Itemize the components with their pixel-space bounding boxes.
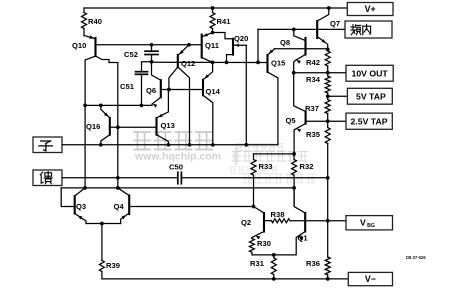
- wire chain link: [327, 178, 329, 257]
- pin box 5V TAP: [347, 88, 392, 104]
- resistor R37: [327, 96, 329, 99]
- wire emitter rail: [85, 104, 152, 106]
- svg-text:Q16: Q16: [86, 122, 100, 131]
- wire tail line: [86, 223, 121, 225]
- svg-text:Q11: Q11: [205, 41, 220, 50]
- capacitor C51: [142, 62, 152, 72]
- wire 5V line: [328, 95, 348, 97]
- node 10V tap: [326, 71, 330, 75]
- wire Q16/Q13 base: [110, 126, 157, 128]
- node rail left: [83, 104, 87, 108]
- svg-text:Q3: Q3: [76, 202, 86, 211]
- pin box strap: [33, 137, 62, 153]
- wire feedback line left: [62, 177, 177, 179]
- node Q20 emitter foot: [244, 143, 248, 147]
- wire 10V line: [294, 72, 346, 74]
- node R32 top: [292, 152, 296, 156]
- node Q6 base rail: [167, 88, 171, 92]
- transistor Q12: [177, 55, 179, 67]
- pin box V+: [347, 3, 393, 16]
- node R31 bottom: [272, 277, 276, 281]
- resistor R39: [101, 224, 103, 261]
- svg-text:Q7: Q7: [330, 19, 340, 28]
- node Q12 collector2: [188, 143, 192, 147]
- node Q16 collector: [99, 143, 103, 147]
- node C51 bottom: [140, 104, 144, 108]
- node R41 bottom: [211, 31, 215, 35]
- resistor R41: [212, 8, 214, 12]
- node Q7 collector: [327, 6, 331, 10]
- svg-text:D8 37-026: D8 37-026: [406, 255, 426, 260]
- wire V+ rail: [84, 7, 347, 9]
- node C52 top: [150, 43, 154, 47]
- svg-text:C50: C50: [169, 163, 183, 172]
- svg-text:5V TAP: 5V TAP: [356, 92, 386, 102]
- transistor Q1: [304, 213, 306, 232]
- wire 2.5V line: [306, 120, 346, 122]
- resistor R42: [325, 51, 330, 66]
- transistor Q11: [201, 35, 203, 58]
- node 5V tap: [326, 94, 330, 98]
- svg-text:V+: V+: [365, 4, 376, 14]
- svg-text:Q12: Q12: [181, 59, 195, 68]
- svg-text:C51: C51: [120, 82, 135, 91]
- node Q13 collector: [167, 143, 171, 147]
- wire Q10/Q11 base rail: [96, 44, 202, 46]
- svg-text:R31: R31: [250, 259, 265, 268]
- wire Q15 emitter line: [275, 48, 328, 50]
- svg-text:R33: R33: [259, 162, 273, 171]
- wire comp rail: [152, 61, 268, 63]
- pin box CAP: [345, 21, 392, 38]
- node tail: [100, 222, 104, 226]
- pin box feedback: [33, 170, 62, 186]
- transistor Q16: [109, 118, 111, 135]
- svg-text:Q20: Q20: [234, 34, 248, 43]
- node cap pin riser: [256, 61, 260, 65]
- node emitter join: [272, 253, 276, 257]
- svg-text:Q6: Q6: [146, 86, 156, 95]
- transistor Q8: [304, 38, 306, 55]
- transistor Q20: [232, 39, 234, 55]
- node Q1 collector junction: [292, 186, 296, 190]
- svg-text:10V OUT: 10V OUT: [352, 68, 389, 78]
- node base rail riser: [116, 125, 120, 129]
- svg-text:2.5V TAP: 2.5V TAP: [351, 117, 388, 127]
- wire Q4 base line: [129, 206, 253, 208]
- node R42 top: [326, 48, 330, 52]
- transistor Q14: [202, 80, 204, 96]
- node feedback riser: [116, 176, 120, 180]
- svg-text:R36: R36: [306, 259, 320, 268]
- svg-text:R35: R35: [306, 130, 321, 139]
- svg-text:Q4: Q4: [114, 202, 125, 211]
- resistor R33: [253, 154, 255, 160]
- resistor R35: [327, 121, 329, 127]
- pin box 10V OUT: [346, 65, 393, 81]
- transistor Q3: [74, 196, 76, 214]
- resistor R32: [293, 154, 295, 160]
- svg-text:Q5: Q5: [286, 116, 297, 125]
- resistor R36: [325, 257, 330, 275]
- node R41 top: [211, 6, 215, 10]
- transistor Q5: [305, 112, 307, 124]
- wire Q3 base staircase: [61, 188, 74, 207]
- node R36 bottom: [326, 277, 330, 281]
- svg-text:R41: R41: [217, 17, 232, 26]
- svg-text:R37: R37: [305, 104, 319, 113]
- svg-text:Q15: Q15: [271, 59, 286, 68]
- wire Q20 emitter: [245, 45, 247, 145]
- node Q16 emitter top: [99, 104, 103, 108]
- svg-text:Q14: Q14: [206, 87, 221, 96]
- resistor R31: [273, 255, 275, 258]
- wire Q10 collector 1: [85, 56, 95, 188]
- svg-text:R42: R42: [306, 58, 320, 67]
- svg-text:Q1: Q1: [298, 234, 309, 243]
- transistor Q10: [94, 38, 96, 56]
- svg-text:R40: R40: [88, 17, 102, 26]
- transistor Q6: [160, 80, 162, 97]
- transistor Q7: [316, 21, 318, 38]
- wire cap pin rail: [258, 28, 345, 30]
- svg-text:R32: R32: [300, 162, 314, 171]
- capacitor C52: [151, 45, 153, 51]
- svg-text:R30: R30: [257, 239, 271, 248]
- decorative watermark: [134, 145, 238, 166]
- node Q8 collector: [292, 28, 296, 32]
- svg-text:C52: C52: [124, 50, 138, 59]
- svg-text:www.hqchip.com: www.hqchip.com: [134, 151, 221, 163]
- transistor Q4: [128, 196, 130, 215]
- node chain mid: [326, 176, 330, 180]
- node Q8 emitter: [292, 71, 296, 75]
- node VBG chain: [326, 219, 330, 223]
- resistor R34: [327, 73, 329, 76]
- transistor Q15: [266, 55, 268, 72]
- svg-text:Q13: Q13: [161, 121, 175, 130]
- pin box VBG: [346, 216, 393, 230]
- svg-text:R34: R34: [306, 75, 321, 84]
- node 2.5V tap: [326, 119, 330, 123]
- pin box V-: [348, 272, 392, 285]
- resistor R38: [272, 219, 290, 223]
- resistor R40: [83, 8, 85, 12]
- node Q4 base junction: [252, 205, 256, 209]
- wire V- rail: [102, 272, 348, 279]
- svg-text:Q8: Q8: [280, 38, 290, 47]
- resistor R30: [251, 238, 253, 239]
- wire Q10 collector 2: [96, 56, 118, 188]
- pin box 2.5V TAP: [346, 113, 392, 129]
- wire R33-R32 top line: [254, 153, 295, 155]
- node Q20 base: [225, 61, 229, 65]
- capacitor C50: [177, 172, 179, 183]
- node amp line A: [83, 186, 87, 190]
- wire cap pin riser: [257, 29, 259, 62]
- node Q11 collector: [211, 61, 215, 65]
- node C52 bottom: [150, 60, 154, 64]
- wire amp line: [61, 187, 294, 189]
- svg-text:R39: R39: [106, 261, 120, 270]
- node Q12 emitter: [187, 43, 191, 47]
- svg-text:R38: R38: [271, 210, 285, 219]
- wire Q6 base: [161, 89, 203, 91]
- svg-text:V−: V−: [365, 274, 376, 284]
- transistor Q13: [155, 118, 157, 135]
- node Q14 collector: [211, 143, 215, 147]
- transistor Q2: [263, 213, 265, 232]
- wire VBG line: [264, 220, 272, 222]
- svg-text:Q10: Q10: [72, 41, 86, 50]
- wire strap line: [62, 144, 278, 146]
- node amp line B: [116, 186, 120, 190]
- svg-text:Q2: Q2: [241, 218, 251, 227]
